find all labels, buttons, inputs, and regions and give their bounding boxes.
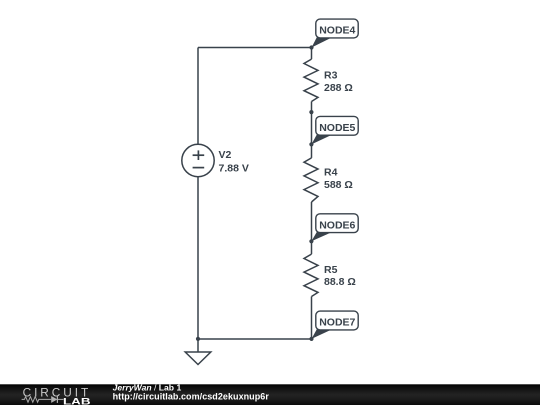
wire left vertical lower xyxy=(197,177,199,339)
wire right top lead xyxy=(311,48,313,60)
resistor R5 zigzag xyxy=(304,254,318,296)
resistor R4 zigzag xyxy=(304,158,318,202)
svg-text:NODE4: NODE4 xyxy=(319,25,355,37)
wire NODE5 to R4 xyxy=(311,144,313,158)
svg-text:NODE6: NODE6 xyxy=(319,219,355,231)
wire R5 to bottom xyxy=(311,297,313,340)
wire R3 to NODE5 xyxy=(311,102,313,145)
node flag NODE6 xyxy=(311,214,358,242)
node flag NODE5 xyxy=(311,116,358,144)
voltage source V2 minus sign xyxy=(193,167,205,169)
resistor R3 zigzag xyxy=(304,59,318,101)
svg-text:http://circuitlab.com/csd2ekux: http://circuitlab.com/csd2ekuxnup6r xyxy=(113,391,270,401)
svg-text:R5: R5 xyxy=(324,264,338,276)
svg-text:88.8 Ω: 88.8 Ω xyxy=(324,276,356,288)
svg-text:LAB: LAB xyxy=(63,396,91,405)
wire top horizontal xyxy=(198,47,312,49)
logo diode symbol xyxy=(51,396,63,403)
junction dot at ground corner xyxy=(196,337,200,341)
svg-text:V2: V2 xyxy=(219,149,232,161)
svg-text:7.88 V: 7.88 V xyxy=(219,162,249,174)
logo resistor squiggle wire xyxy=(22,397,52,403)
svg-text:R4: R4 xyxy=(324,167,338,179)
junction dot below R3 xyxy=(309,110,313,114)
wire NODE6 to R5 xyxy=(311,241,313,254)
voltage source V2 plus sign xyxy=(193,150,205,160)
junction dot at NODE4 xyxy=(309,45,313,49)
junction dot at NODE6 xyxy=(309,239,313,243)
ground stem xyxy=(197,339,199,352)
ground triangle xyxy=(185,352,211,365)
node flag NODE7 xyxy=(312,311,359,339)
voltage source V2 circle xyxy=(182,144,214,176)
svg-text:NODE7: NODE7 xyxy=(319,317,355,329)
junction dot at NODE5 xyxy=(309,142,313,146)
svg-text:NODE5: NODE5 xyxy=(319,122,355,134)
wire bottom horizontal xyxy=(198,338,312,340)
wire R4 to NODE6 xyxy=(311,202,313,241)
svg-text:R3: R3 xyxy=(324,70,338,82)
node flag NODE4 xyxy=(312,19,359,47)
svg-text:588 Ω: 588 Ω xyxy=(324,179,353,191)
wire left vertical upper xyxy=(197,48,199,145)
svg-text:288 Ω: 288 Ω xyxy=(324,82,353,94)
footer bar xyxy=(0,384,540,405)
junction dot at NODE7 xyxy=(309,337,313,341)
